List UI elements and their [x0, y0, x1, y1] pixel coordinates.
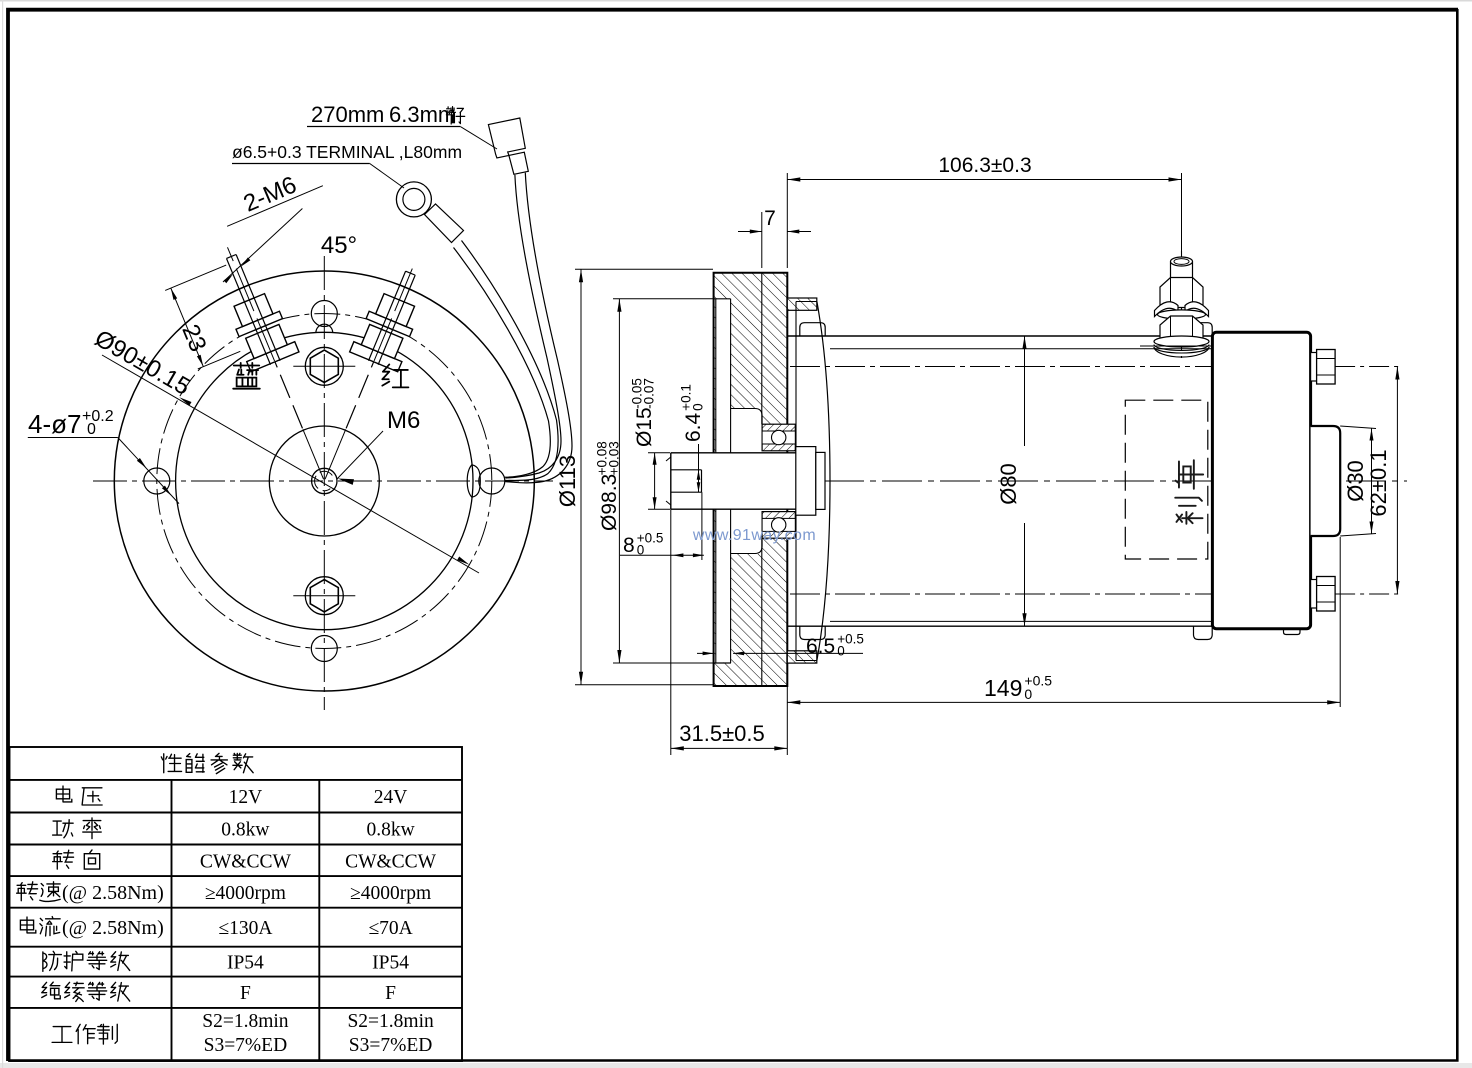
brake label (CJK, rotated) [1175, 460, 1203, 524]
dim D113 [555, 269, 713, 685]
armature end curve [817, 302, 830, 661]
end cap (thick outline) [1212, 332, 1310, 628]
svg-text:≤70A: ≤70A [368, 918, 412, 939]
svg-text:IP54: IP54 [372, 953, 409, 974]
crimp tab bottom (flange joint) [800, 626, 825, 639]
dim 4-D7 [28, 408, 179, 504]
svg-text:Ø30: Ø30 [1343, 460, 1368, 502]
svg-text:+0.03: +0.03 [607, 441, 622, 475]
terminal stud on housing (side view) [1140, 251, 1214, 358]
svg-text:0: 0 [691, 403, 706, 411]
svg-text:F: F [385, 983, 396, 1004]
through-bolt centerline bottom [790, 593, 1338, 595]
motor body shell [787, 310, 1212, 651]
motor body circle D80 [176, 332, 473, 629]
svg-text:6.5: 6.5 [806, 635, 835, 658]
main axis centerline [708, 480, 1407, 482]
svg-text:4-ø7: 4-ø7 [28, 409, 81, 439]
dim D90 diagonal [102, 355, 479, 573]
FRONT VIEW of motor [93, 237, 553, 710]
dim 6.5 [697, 632, 864, 659]
dim 62 [1335, 367, 1402, 595]
dim 6.4 [679, 384, 706, 492]
through-bolt centerline top [790, 366, 1338, 368]
brush zone dashed box [1125, 400, 1208, 559]
shaft keyway slot [671, 470, 702, 492]
svg-text:F: F [240, 983, 251, 1004]
end cap bottom plug [1284, 629, 1301, 635]
horizontal centerline [93, 480, 553, 482]
svg-text:≥4000rpm: ≥4000rpm [205, 883, 286, 904]
through-bolt hex head top [293, 347, 355, 385]
label D6.5+0.3 TERMINAL L80mm [232, 142, 462, 188]
crimp tab bottom (cap joint) [1194, 626, 1213, 639]
through-bolt nut top (end) [1311, 350, 1336, 385]
svg-text:31.5±0.5: 31.5±0.5 [679, 721, 764, 746]
dim 8 keyway [620, 492, 704, 586]
svg-text:24V: 24V [374, 787, 408, 808]
performance table [10, 747, 463, 1061]
label red (CJK) [382, 364, 408, 387]
dim 2-M6 [217, 162, 323, 227]
table header CJK [161, 754, 181, 773]
svg-text:270mm: 270mm [311, 102, 384, 127]
svg-text:Ø98.3: Ø98.3 [598, 474, 621, 531]
svg-text:≥4000rpm: ≥4000rpm [350, 883, 431, 904]
bearing seat pocket [731, 409, 763, 425]
center hole M6 [312, 468, 337, 493]
wire from spade connector [506, 175, 562, 478]
center boss circle D30 [269, 426, 379, 536]
dim D15 [630, 378, 670, 509]
wire to ring terminal [462, 241, 559, 481]
terminal stud blue (2-M6) [203, 237, 347, 489]
spigot ring lips D98.3 [787, 298, 817, 310]
dim M6 leader [337, 431, 383, 479]
svg-text:0: 0 [837, 644, 845, 659]
svg-text:8: 8 [623, 534, 635, 557]
page edge tint [0, 1063, 1472, 1068]
dim 106.3 [787, 154, 1181, 268]
svg-text:0.8kw: 0.8kw [366, 820, 414, 841]
svg-text:45°: 45° [321, 232, 357, 259]
svg-text:149: 149 [984, 675, 1022, 701]
dim 23 [165, 265, 240, 369]
svg-text:7: 7 [764, 207, 776, 230]
svg-text:6.4: 6.4 [682, 412, 705, 442]
svg-text:≤130A: ≤130A [218, 918, 272, 939]
svg-text:0: 0 [87, 421, 96, 438]
mounting hole 7mm #4 [311, 636, 337, 662]
svg-text:S2=1.8min: S2=1.8min [202, 1011, 289, 1032]
flange outer circle D113 [114, 271, 534, 691]
svg-text:106.3±0.3: 106.3±0.3 [938, 154, 1031, 177]
dim D98.3 [595, 299, 732, 663]
crimp tab top (flange joint) [800, 323, 825, 336]
dim D80 [996, 336, 1027, 626]
dim 31.5 [671, 586, 788, 755]
stator magnet lines [830, 348, 1212, 350]
svg-text:IP54: IP54 [227, 953, 264, 974]
svg-text:CW&CCW: CW&CCW [345, 851, 437, 872]
svg-text:S3=7%ED: S3=7%ED [349, 1035, 433, 1056]
crimp tab at 3 o clock [467, 465, 480, 497]
mounting hole 7mm #1 [144, 468, 170, 494]
shaft [666, 453, 797, 509]
svg-text:S3=7%ED: S3=7%ED [204, 1035, 288, 1056]
bolt circle D90 (dash-dot) [157, 314, 492, 649]
crimp tab top (cap joint) [1194, 323, 1213, 336]
svg-text:0: 0 [1024, 686, 1032, 702]
mounting hole 7mm #2 [479, 468, 505, 494]
svg-text:Ø15: Ø15 [633, 407, 656, 447]
svg-text:ø6.5+0.3 TERMINAL ,L80mm: ø6.5+0.3 TERMINAL ,L80mm [232, 142, 462, 162]
svg-text:M6: M6 [387, 407, 420, 434]
svg-text:S2=1.8min: S2=1.8min [347, 1011, 434, 1032]
svg-text:www.91way.com: www.91way.com [692, 527, 816, 544]
svg-text:Ø113: Ø113 [555, 455, 580, 507]
spade connector 6.3mm [488, 118, 528, 174]
label 270mm 6.3mm terminal [307, 102, 497, 149]
flange cross-section (hatched) [668, 273, 800, 686]
vertical centerline [323, 256, 325, 710]
dim D30 [1340, 426, 1376, 536]
label blue (CJK) [233, 363, 260, 389]
through-bolt nut bottom (end) [1311, 577, 1336, 612]
dim 7 [738, 207, 811, 268]
terminal stud red (2-M6) [301, 254, 438, 489]
mounting hole 7mm #3 [311, 301, 337, 327]
row labels CJK [56, 786, 71, 802]
svg-text:(@ 2.58Nm): (@ 2.58Nm) [62, 917, 164, 939]
svg-text:CW&CCW: CW&CCW [200, 851, 292, 872]
svg-text:12V: 12V [229, 787, 263, 808]
svg-text:0: 0 [637, 543, 645, 558]
crimp tab bump at 12 o clock [316, 324, 333, 332]
svg-text:-0.07: -0.07 [642, 378, 657, 409]
ball bearing [762, 424, 795, 538]
dim 149 [787, 537, 1340, 707]
end cap boss D30 [1311, 426, 1341, 536]
flange internal edges [714, 298, 731, 300]
commutator [796, 447, 825, 516]
svg-text:Ø80: Ø80 [996, 463, 1021, 505]
svg-text:(@ 2.58Nm): (@ 2.58Nm) [62, 882, 164, 904]
ring terminal (D6.5 TERMINAL) [396, 182, 463, 243]
through-bolt hex head bottom [293, 577, 355, 615]
svg-text:0.8kw: 0.8kw [221, 820, 269, 841]
svg-text:62±0.1: 62±0.1 [1366, 449, 1391, 516]
